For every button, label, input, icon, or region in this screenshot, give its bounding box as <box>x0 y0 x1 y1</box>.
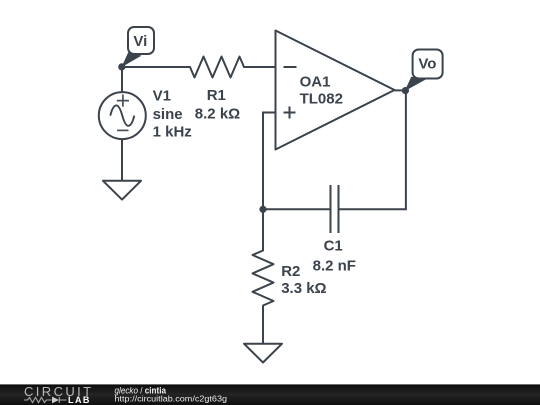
op-amp plus sign <box>284 107 296 119</box>
wire node B down to R2 <box>262 209 264 250</box>
svg-text:OA1: OA1 <box>300 73 331 90</box>
op-amp U1 triangle <box>276 31 395 150</box>
V1 minus polarity mark <box>117 129 128 131</box>
net flag Vo tail <box>405 77 428 91</box>
CircuitLab logo diode triangle <box>52 397 59 404</box>
node Vo junction dot <box>402 87 409 94</box>
net flag Vi box <box>128 27 154 54</box>
capacitor C1 plates <box>331 185 339 233</box>
ground (V1) <box>103 181 141 200</box>
svg-text:sine: sine <box>153 106 183 123</box>
resistor R1 <box>190 57 244 78</box>
svg-text:1 kHz: 1 kHz <box>153 124 192 141</box>
V1 plus polarity mark <box>117 95 129 107</box>
wire node Vi to R1 <box>122 66 190 68</box>
svg-text:C1: C1 <box>324 238 343 255</box>
svg-text:R1: R1 <box>207 87 226 104</box>
voltage source V1 circle <box>99 92 146 139</box>
wire node B to capacitor C1 left plate <box>263 208 331 210</box>
resistor R2 <box>253 251 274 306</box>
svg-text:3.3 kΩ: 3.3 kΩ <box>281 280 326 297</box>
svg-text:R2: R2 <box>281 263 300 280</box>
wire op-amp non-inverting input down to node B <box>263 113 276 210</box>
svg-text:Vi: Vi <box>133 33 147 50</box>
wire R2 to ground <box>262 306 264 344</box>
svg-text:LAB: LAB <box>68 395 91 405</box>
svg-text:TL082: TL082 <box>300 91 343 108</box>
op-amp minus sign <box>284 66 297 68</box>
ground (R2) <box>244 344 282 363</box>
svg-text:Vo: Vo <box>418 55 436 72</box>
wire R1 to op-amp inverting input <box>244 66 276 68</box>
net flag Vi tail <box>121 52 141 67</box>
wire V1 bottom to ground <box>121 139 123 181</box>
svg-text:8.2 kΩ: 8.2 kΩ <box>195 106 240 123</box>
wire node Vi down to V1 top <box>121 67 123 92</box>
V1 sine waveform <box>110 105 134 125</box>
CircuitLab logo resistor+diode glyph <box>24 397 67 403</box>
node Vi junction dot <box>118 63 125 70</box>
wire C1 right plate up to output node <box>339 90 406 209</box>
node B junction dot <box>259 206 266 213</box>
svg-text:http://circuitlab.com/c2gt63g: http://circuitlab.com/c2gt63g <box>115 395 228 404</box>
svg-text:8.2 nF: 8.2 nF <box>313 258 356 275</box>
wire op-amp output to node Vo <box>395 89 406 91</box>
net flag Vo box <box>413 50 443 79</box>
svg-text:V1: V1 <box>153 87 171 104</box>
